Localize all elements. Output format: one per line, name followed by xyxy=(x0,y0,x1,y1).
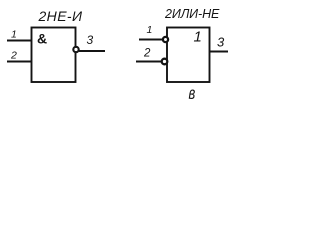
gate U2 body (2NOR) xyxy=(167,28,210,83)
svg-text:в: в xyxy=(189,84,196,101)
svg-text:1: 1 xyxy=(194,29,202,46)
svg-text:2ИЛИ-НЕ: 2ИЛИ-НЕ xyxy=(164,7,220,21)
svg-text:2: 2 xyxy=(10,50,17,62)
wire output 3 xyxy=(210,51,228,53)
wire input 2 xyxy=(7,61,31,63)
caption в xyxy=(189,84,196,103)
inversion circle input 2 xyxy=(162,59,168,65)
inversion circle output xyxy=(73,47,78,52)
svg-text:1: 1 xyxy=(11,29,17,41)
wire output 3 xyxy=(79,50,105,52)
gate U1 body (2NAND) xyxy=(32,28,76,83)
wire input 1 xyxy=(139,39,163,41)
svg-text:2: 2 xyxy=(143,48,151,60)
svg-text:3: 3 xyxy=(217,35,225,50)
wire input 2 xyxy=(136,61,162,63)
svg-text:&: & xyxy=(37,31,47,47)
inversion circle input 1 xyxy=(163,37,168,42)
svg-text:3: 3 xyxy=(87,33,94,47)
svg-text:2НЕ-И: 2НЕ-И xyxy=(38,8,83,24)
svg-text:1: 1 xyxy=(147,24,153,36)
wire input 1 xyxy=(7,40,31,42)
